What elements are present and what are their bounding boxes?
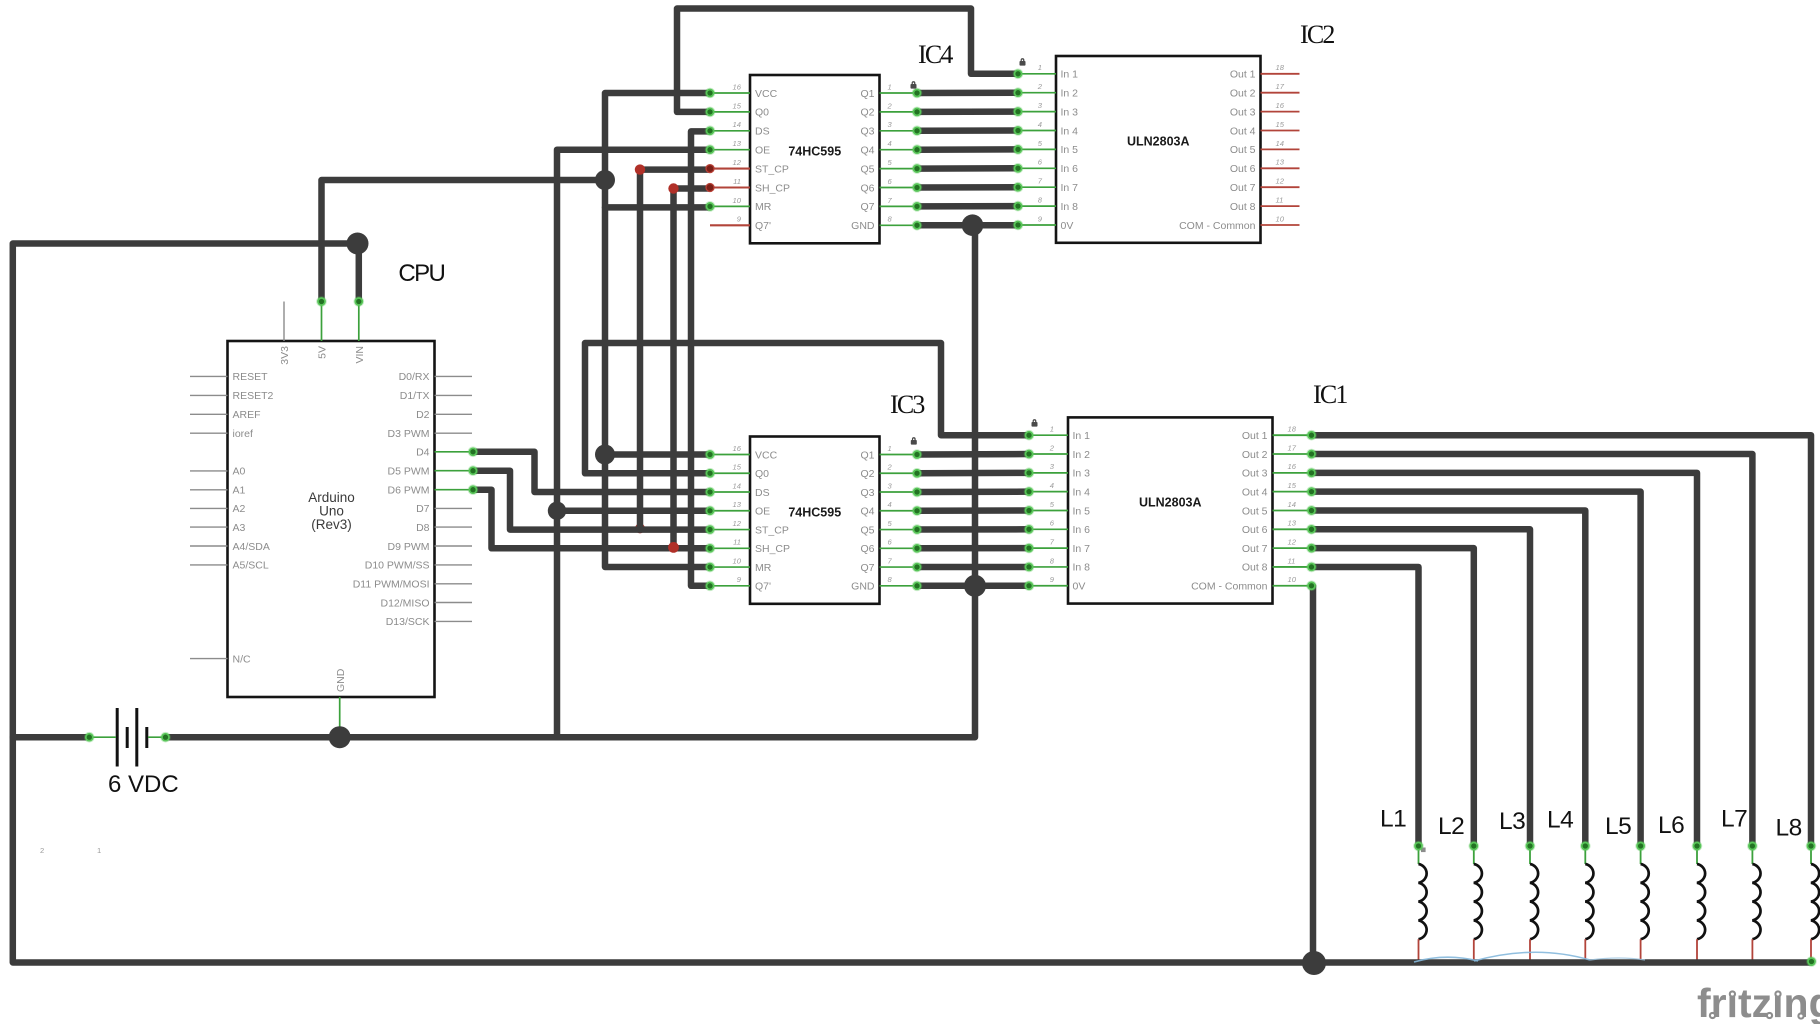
svg-text:5V: 5V [317,346,329,359]
IC IC2 ULN2803A body [1056,56,1261,243]
svg-text:ST_CP: ST_CP [755,163,789,175]
svg-text:In 4: In 4 [1073,486,1091,498]
svg-text:L7: L7 [1721,806,1747,833]
pin end dots IC4 [705,88,716,99]
svg-text:DS: DS [755,126,770,138]
svg-text:GND: GND [851,581,875,593]
svg-text:Out 5: Out 5 [1230,144,1256,156]
svg-text:14: 14 [1276,139,1284,148]
inductor L3 [1529,846,1531,864]
wire Q2-IC3 to In3-IC1 [917,470,1029,477]
wire GND bus from battery- to GND riser [166,225,976,737]
wire SH_CP-IC4 riser [674,189,711,549]
svg-text:4: 4 [1050,481,1054,490]
svg-text:DS: DS [755,487,770,499]
Arduino bottom pin GND [339,697,341,734]
svg-text:A2: A2 [233,503,246,515]
wire D5 to ST_CP-IC3 [473,471,710,530]
svg-text:0V: 0V [1073,581,1086,593]
svg-text:Out 8: Out 8 [1230,201,1256,213]
svg-text:L4: L4 [1547,807,1573,834]
svg-text:In 2: In 2 [1061,88,1079,100]
svg-text:12: 12 [1276,177,1285,186]
svg-text:In 4: In 4 [1061,125,1079,137]
svg-text:A1: A1 [233,485,246,497]
wire D4 to DS-IC3 [473,452,710,492]
wire Q6-IC4 to In7-IC2 [917,184,1018,191]
svg-text:CPU: CPU [398,260,444,287]
svg-text:D4: D4 [416,447,430,459]
svg-text:13: 13 [1276,158,1285,167]
inductor L1 [1418,846,1420,864]
junction GND riser / GND-IC4 wire [962,214,984,236]
svg-text:13: 13 [733,139,742,148]
svg-text:14: 14 [733,120,741,129]
svg-text:L8: L8 [1776,814,1802,841]
svg-text:12: 12 [733,158,742,167]
wire battery+ to VIN and bottom +bus [13,244,1812,963]
svg-text:L6: L6 [1658,812,1684,839]
junction GND riser / GND-IC3 wire [964,575,986,597]
junction OE riser / OE-IC3 [548,502,566,520]
svg-text:In 3: In 3 [1073,468,1091,480]
wire GND-IC3 to 0V-IC1 [917,583,1029,590]
svg-text:Q1: Q1 [860,449,874,461]
wire VCC-IC3 branch [605,451,710,458]
svg-text:12: 12 [1288,538,1297,547]
svg-text:ST_CP: ST_CP [755,524,789,536]
svg-text:Out 7: Out 7 [1230,182,1256,194]
svg-text:RESET2: RESET2 [233,390,274,402]
svg-text:A4/SDA: A4/SDA [233,541,270,553]
svg-text:11: 11 [1288,556,1296,565]
svg-text:74HC595: 74HC595 [788,506,841,520]
IC IC3 74HC595 body [750,437,880,604]
wire Out5-IC1 to L4 [1312,510,1586,846]
svg-text:A3: A3 [233,522,246,534]
wire Q0-IC4 to In1-IC2 (top route) [677,9,1018,112]
svg-text:VCC: VCC [755,449,778,461]
svg-text:AREF: AREF [233,409,261,421]
svg-text:MR: MR [755,562,772,574]
svg-text:GND: GND [851,220,875,232]
svg-text:13: 13 [1288,519,1297,528]
svg-text:RESET: RESET [233,371,269,383]
svg-text:A0: A0 [233,466,246,478]
svg-text:L5: L5 [1605,813,1631,840]
svg-text:2: 2 [1037,82,1043,91]
svg-text:2: 2 [887,463,893,472]
svg-text:ioref: ioref [233,428,254,440]
IC1 left pins 1-9 (In1-In8 0V) [1030,434,1068,436]
junction 5V / VCC-IC3 / MR-IC3 [595,445,615,465]
wire Out6-IC1 to L3 [1312,529,1531,846]
wire Q7-IC3 to In8-IC1 [917,564,1029,571]
svg-text:COM - Common: COM - Common [1191,581,1268,593]
svg-text:Q4: Q4 [860,506,874,518]
svg-text:Q7': Q7' [755,220,771,232]
wire Q3-IC4 to In4-IC2 [917,127,1018,134]
wire Out3-IC1 to L6 [1312,473,1698,846]
svg-text:N/C: N/C [233,653,252,665]
wire Q4-IC4 to In5-IC2 [917,146,1018,153]
svg-text:Out 2: Out 2 [1230,88,1256,100]
svg-text:D8: D8 [416,522,430,534]
svg-text:10: 10 [733,556,742,565]
svg-text:Out 1: Out 1 [1230,69,1256,81]
svg-text:D7: D7 [416,503,430,515]
svg-text:18: 18 [1288,425,1297,434]
svg-text:11: 11 [733,177,741,186]
inductor L4 [1584,846,1586,864]
svg-text:12: 12 [733,519,742,528]
svg-text:D13/SCK: D13/SCK [386,616,430,628]
svg-text:IC1: IC1 [1313,380,1347,409]
svg-text:1: 1 [888,82,892,91]
svg-text:Q1: Q1 [860,88,874,100]
svg-text:Q7': Q7' [755,581,771,593]
inductor L2 [1473,846,1475,864]
svg-text:D2: D2 [416,409,430,421]
svg-text:In 6: In 6 [1061,163,1079,175]
Arduino left pins (RESET..A5/SCL, N/C) [190,375,228,377]
svg-text:11: 11 [733,538,741,547]
svg-text:D5 PWM: D5 PWM [388,466,430,478]
pin end dots IC1 [1024,430,1035,441]
svg-text:Q6: Q6 [860,182,874,194]
svg-text:14: 14 [1288,500,1296,509]
wire Q4-IC3 to In5-IC1 [917,507,1029,514]
svg-text:IC3: IC3 [890,390,924,419]
wire Q5-IC3 to In6-IC1 [917,526,1029,533]
wire ST_CP-IC4 riser [640,170,710,530]
wire D6 to SH_CP-IC3 [473,490,710,549]
svg-text:Out 4: Out 4 [1242,486,1268,498]
wire GND-IC4 to 0V-IC2 [917,222,1018,229]
svg-text:17: 17 [1288,443,1297,452]
svg-text:D12/MISO: D12/MISO [380,597,429,609]
svg-text:74HC595: 74HC595 [788,145,841,159]
svg-text:3V3: 3V3 [279,346,291,365]
wire Out4-IC1 to L5 [1312,492,1641,846]
IC IC1 ULN2803A body [1068,417,1273,603]
wire 5V rail: VCC-IC4 down to MR-IC3 [605,93,710,567]
inductor L6 [1696,846,1698,864]
svg-text:Q0: Q0 [755,107,769,119]
svg-text:IC4: IC4 [918,40,953,69]
svg-text:1: 1 [97,846,101,855]
svg-text:In 2: In 2 [1073,449,1091,461]
svg-text:13: 13 [733,500,742,509]
wire COM-IC1 to +bus [1310,586,1317,963]
pin end dots inductor tops [1413,841,1424,852]
svg-text:In 1: In 1 [1061,69,1079,81]
svg-text:14: 14 [733,481,741,490]
IC2 right pins 18-10 (Out1-Out8 COM) [1261,73,1300,75]
wire Out8-IC1 to L1 [1312,567,1419,846]
svg-text:ULN2803A: ULN2803A [1139,496,1202,510]
svg-text:In 3: In 3 [1061,106,1079,118]
svg-text:10: 10 [1276,214,1285,223]
svg-text:16: 16 [1288,462,1297,471]
wire 5V rail riser from Arduino 5V [322,180,606,302]
lock icon at Q1-IC3 [911,437,917,444]
svg-text:Q3: Q3 [860,487,874,499]
svg-text:D9 PWM: D9 PWM [388,541,430,553]
svg-text:15: 15 [1288,481,1297,490]
svg-text:Q2: Q2 [860,468,874,480]
junction battery+ / VIN [347,233,369,255]
svg-text:D6 PWM: D6 PWM [388,485,430,497]
svg-text:Out 3: Out 3 [1230,106,1256,118]
wire Q1-IC4 to In2-IC2 [917,89,1018,96]
svg-text:D0/RX: D0/RX [399,371,430,383]
svg-text:Out 7: Out 7 [1242,543,1268,555]
wire OE-IC3 branch [557,508,710,515]
svg-text:Out 3: Out 3 [1242,468,1268,480]
svg-text:D3 PWM: D3 PWM [388,428,430,440]
lock icon at In1-IC1 [1032,419,1038,427]
Arduino Uno U1 (CPU) body [228,341,435,697]
wire Q5-IC4 to In6-IC2 [917,165,1018,172]
svg-text:In 5: In 5 [1061,144,1079,156]
battery BT1 6 VDC [116,708,119,767]
svg-text:10: 10 [733,196,742,205]
svg-text:GND: GND [335,668,347,692]
IC2 left pins 1-9 (In1-In8 0V) [1018,73,1056,75]
red junction ST_CP net at IC3 (under wires) [635,523,645,533]
svg-text:VCC: VCC [755,88,778,100]
IC4 left pins 16-9 (VCC Q0 DS OE ST_CP SH_CP MR Q7') [710,92,750,94]
pin end dots IC3 [705,449,716,460]
svg-text:Out 6: Out 6 [1230,163,1256,175]
svg-text:Q7: Q7 [860,562,874,574]
svg-text:SH_CP: SH_CP [755,182,790,194]
svg-text:In 8: In 8 [1061,201,1079,213]
svg-text:Q7: Q7 [860,201,874,213]
svg-text:COM - Common: COM - Common [1179,220,1256,232]
svg-text:Out 2: Out 2 [1242,449,1268,461]
svg-text:ULN2803A: ULN2803A [1127,135,1190,149]
wire Q3-IC3 to In4-IC1 [917,488,1029,495]
svg-text:16: 16 [1276,101,1285,110]
svg-text:11: 11 [1276,196,1284,205]
junction 5V / VCC-IC4 / MR-IC4 [595,170,615,190]
svg-text:15: 15 [733,101,742,110]
svg-text:17: 17 [1276,82,1285,91]
svg-text:SH_CP: SH_CP [755,543,790,555]
pin end dot +bus right end [1806,956,1817,967]
red junction SH_CP net at IC3 [668,542,679,553]
artifact blue arcs near bus [1414,957,1478,962]
IC3 right pins 1-8 (Q1-Q7 GND) [880,454,918,456]
pin end dots battery [84,732,95,743]
svg-text:10: 10 [1288,575,1297,584]
svg-text:Q5: Q5 [860,524,874,536]
svg-text:1: 1 [888,444,892,453]
artifact square at L1 pin [1421,848,1426,853]
svg-text:In 1: In 1 [1073,430,1091,442]
svg-text:2: 2 [1049,443,1055,452]
svg-text:Q5: Q5 [860,163,874,175]
svg-text:L3: L3 [1499,808,1525,835]
svg-text:(Rev3): (Rev3) [311,517,352,532]
svg-text:4: 4 [1038,120,1042,129]
svg-text:OE: OE [755,145,770,157]
svg-text:15: 15 [733,463,742,472]
wire Out2-IC1 to L7 [1312,454,1753,846]
svg-text:Q4: Q4 [860,145,874,157]
wire Out7-IC1 to L2 [1312,548,1474,846]
IC4 right pins 1-8 (Q1-Q7 GND) [880,92,918,94]
svg-text:16: 16 [733,444,742,453]
pin end dots IC2 left [1013,69,1024,80]
wire Q7'-IC3 to DS-IC4 (cascade) [691,131,710,585]
wire Q1-IC3 to In2-IC1 [917,451,1029,458]
svg-text:D11 PWM/MOSI: D11 PWM/MOSI [353,579,430,591]
svg-text:16: 16 [733,82,742,91]
red bendpoint SH_CP-IC4 [668,183,678,193]
svg-text:Out 1: Out 1 [1242,430,1268,442]
svg-text:In 6: In 6 [1073,524,1091,536]
svg-text:4: 4 [888,500,892,509]
lock icon at Q1-IC4 [911,81,917,89]
svg-text:Q3: Q3 [860,126,874,138]
svg-text:In 8: In 8 [1073,562,1091,574]
junction Arduino GND / GND bus [329,726,351,748]
Arduino right pins (D0/RX..D13/SCK) [435,375,473,377]
inductor L8 [1810,846,1812,864]
wire Out1-IC1 to L8 [1312,435,1812,846]
svg-text:Q6: Q6 [860,543,874,555]
svg-text:Out 5: Out 5 [1242,505,1268,517]
svg-text:Out 6: Out 6 [1242,524,1268,536]
svg-text:In 5: In 5 [1073,505,1091,517]
inductor L7 [1751,846,1753,864]
IC1 right pins 18-10 (Out1-Out8 COM) [1273,434,1312,436]
svg-text:L1: L1 [1380,806,1406,833]
wire MR-IC4 branch [605,204,710,211]
junction COM-IC1 / +bus [1302,951,1326,975]
svg-text:OE: OE [755,506,770,518]
svg-text:15: 15 [1276,120,1285,129]
svg-text:2: 2 [887,101,893,110]
pin end dots Arduino D4 D5 D6 5V VIN [468,447,479,458]
wire Q6-IC3 to In7-IC1 [917,545,1029,552]
wire Q0-IC3 to In1-IC1 [585,343,1029,473]
svg-text:4: 4 [888,139,892,148]
Arduino top pins 3V3 5V VIN [283,302,285,342]
svg-text:In 7: In 7 [1073,543,1091,555]
svg-text:VIN: VIN [354,346,366,364]
svg-text:1: 1 [1038,63,1042,72]
wire Q2-IC4 to In3-IC2 [917,108,1018,115]
svg-text:Out 4: Out 4 [1230,125,1256,137]
svg-text:18: 18 [1276,63,1285,72]
svg-text:MR: MR [755,201,772,213]
svg-text:Q0: Q0 [755,468,769,480]
svg-text:6 VDC: 6 VDC [108,771,179,798]
svg-text:Q2: Q2 [860,107,874,119]
svg-text:L2: L2 [1438,813,1464,840]
red bendpoint ST_CP-IC4 [635,164,645,174]
wire Q7-IC4 to In8-IC2 [917,203,1018,210]
svg-text:D10 PWM/SS: D10 PWM/SS [365,560,430,572]
lock icon at In1-IC2 [1020,58,1026,66]
svg-text:A5/SCL: A5/SCL [233,560,269,572]
svg-text:In 7: In 7 [1061,182,1079,194]
wire battery+ stub to left rail [13,734,90,741]
inductor L5 [1640,846,1642,864]
svg-text:1: 1 [1050,425,1054,434]
svg-text:IC2: IC2 [1300,20,1334,49]
wire OE-IC4/OE-IC3 to GND bus [557,150,710,738]
IC IC4 74HC595 body [750,75,880,243]
IC3 left pins 16-9 (VCC Q0 DS OE ST_CP SH_CP MR Q7') [710,454,750,456]
svg-text:2: 2 [40,846,44,855]
svg-text:D1/TX: D1/TX [400,390,430,402]
svg-text:0V: 0V [1061,220,1074,232]
svg-text:Out 8: Out 8 [1242,562,1268,574]
